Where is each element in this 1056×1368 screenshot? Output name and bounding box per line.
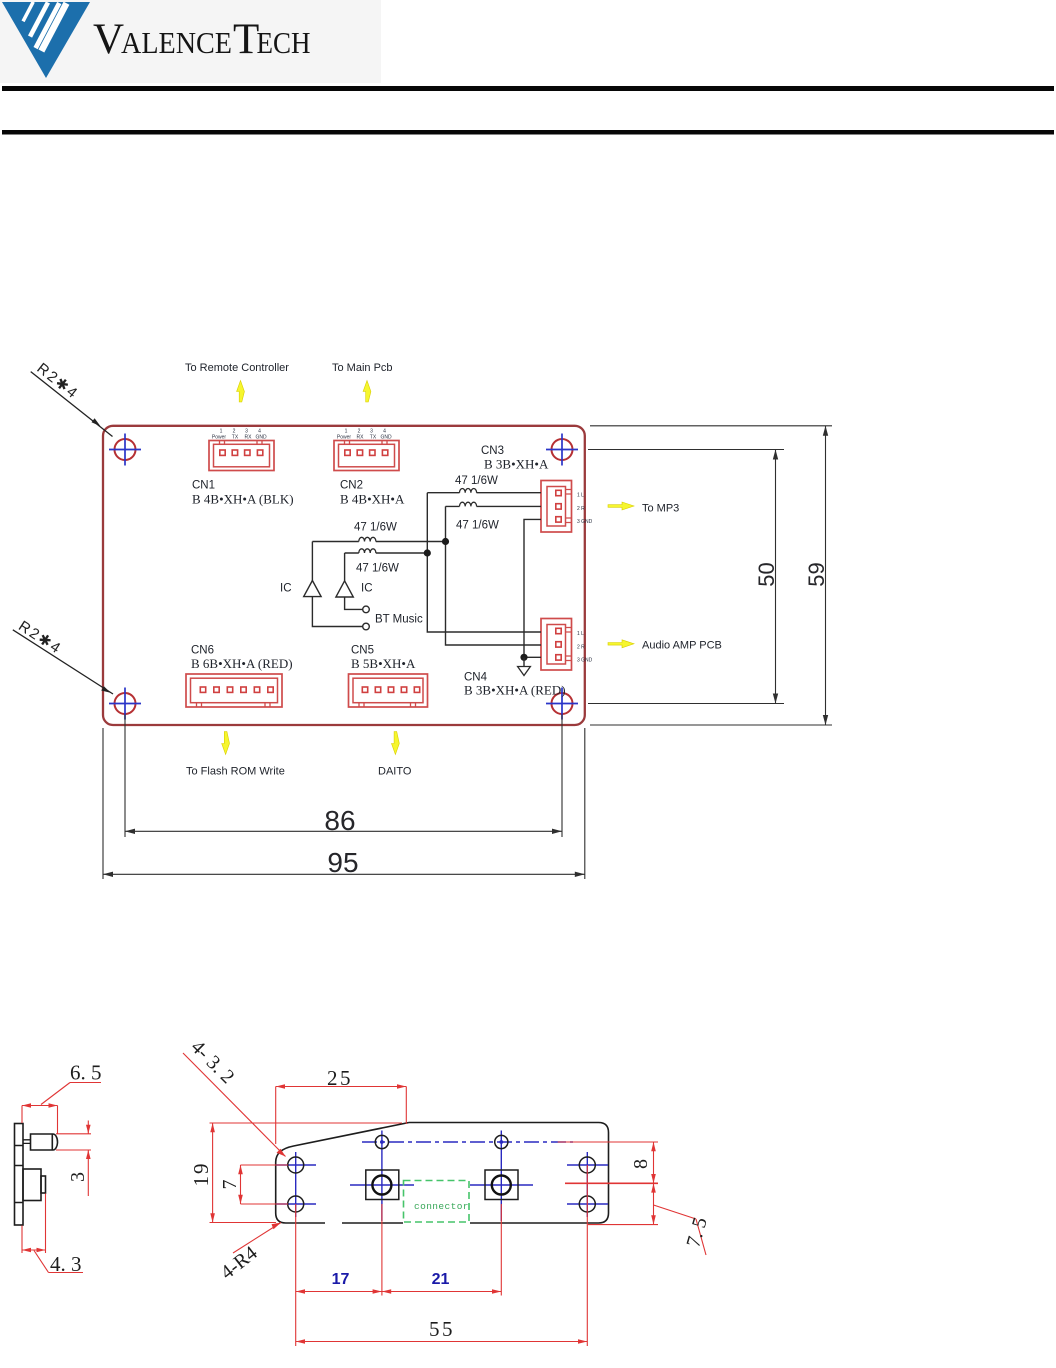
hole left bottom xyxy=(288,1196,304,1212)
svg-text:47 1/6W: 47 1/6W xyxy=(455,475,498,487)
dim 8 xyxy=(558,1141,658,1143)
resistor R2 47 1/6W (to CN3 pin2) xyxy=(460,502,477,506)
rule 2 xyxy=(2,130,1054,135)
mounting hole top-left xyxy=(109,434,141,466)
svg-text:2 R: 2 R xyxy=(577,506,585,512)
dim 7 xyxy=(240,1165,242,1204)
dim 3 xyxy=(56,1121,91,1197)
svg-text:ALENCE: ALENCE xyxy=(121,25,232,60)
CN3 pin labels xyxy=(577,493,593,526)
resistor R3 47 1/6W xyxy=(359,537,376,541)
svg-text:8: 8 xyxy=(630,1159,652,1169)
connector CN5 (5-pin) xyxy=(349,674,428,707)
svg-text:4- 3. 2: 4- 3. 2 xyxy=(186,1036,238,1088)
stud stem xyxy=(23,1140,31,1144)
svg-text:ECH: ECH xyxy=(257,25,311,60)
wire to IC triangle 1 xyxy=(311,542,313,581)
switch contact upper (BT Music) xyxy=(363,606,370,613)
blue vertical centerline through pad 1 xyxy=(381,1131,383,1222)
junction dot V2/wireA xyxy=(442,538,449,545)
red dimension group xyxy=(183,1053,706,1346)
R2*4 leader bottom xyxy=(13,618,113,694)
svg-text:IC: IC xyxy=(280,583,292,595)
green connector box xyxy=(404,1181,470,1223)
svg-text:55: 55 xyxy=(429,1317,455,1341)
svg-text:59: 59 xyxy=(804,562,829,586)
connector CN4 (3-pin vertical) xyxy=(541,619,572,671)
svg-text:B 3B•XH•A (RED): B 3B•XH•A (RED) xyxy=(464,683,566,698)
connector CN1 (4-pin) xyxy=(209,441,274,471)
pad circle 2 xyxy=(492,1176,511,1195)
wire B (left lower, with resistor R4) xyxy=(345,552,428,554)
resistor R1 47 1/6W (top, to CN3 pin1) xyxy=(460,489,477,493)
extension line left edge down xyxy=(102,728,104,879)
R2*4 leader top xyxy=(31,360,113,437)
yellow arrow down (daito) xyxy=(392,732,400,755)
dimension 59 line xyxy=(825,426,827,725)
yellow arrow right (to mp3) xyxy=(608,502,634,510)
wire CN3 pin3 GND to CN4 pin3 xyxy=(524,519,541,657)
svg-text:To Flash ROM Write: To Flash ROM Write xyxy=(186,766,285,778)
lower block xyxy=(23,1169,46,1201)
dim 17 / 21 xyxy=(296,1291,382,1293)
switch contact lower (BT Music) xyxy=(363,623,370,630)
svg-text:CN6: CN6 xyxy=(191,645,214,657)
PCB board outline xyxy=(103,426,585,725)
small hole 1 xyxy=(375,1135,388,1148)
dimension 50 line xyxy=(775,450,777,704)
dimension 95 line xyxy=(103,873,585,875)
dim 7.5 xyxy=(653,1183,655,1224)
mounting hole top-right xyxy=(546,434,578,466)
svg-text:7. 5: 7. 5 xyxy=(682,1215,711,1250)
svg-text:B 6B•XH•A (RED): B 6B•XH•A (RED) xyxy=(191,656,293,671)
leader 4-3.2 xyxy=(183,1053,286,1157)
dim 4.3 xyxy=(22,1194,83,1273)
svg-text:BT Music: BT Music xyxy=(375,614,423,626)
logo V mark xyxy=(2,1,90,78)
svg-text:TX: TX xyxy=(370,435,377,441)
extension line right hole down xyxy=(561,715,563,838)
extension line bottom hole right xyxy=(588,703,784,705)
svg-text:25: 25 xyxy=(327,1066,353,1090)
svg-text:1 L: 1 L xyxy=(577,631,584,637)
svg-text:B 4B•XH•A: B 4B•XH•A xyxy=(340,492,405,507)
CN4 pin labels xyxy=(577,631,593,664)
yellow arrow up (to main pcb) xyxy=(363,381,371,403)
svg-text:To Remote Controller: To Remote Controller xyxy=(185,362,289,374)
wire triangle2 to switch upper contact xyxy=(345,597,363,609)
svg-text:47 1/6W: 47 1/6W xyxy=(354,522,397,534)
svg-text:47 1/6W: 47 1/6W xyxy=(456,520,499,532)
svg-text:R2✱4: R2✱4 xyxy=(34,360,82,403)
svg-text:V: V xyxy=(93,16,124,63)
side plate xyxy=(15,1124,24,1226)
blue vertical centerline through pad 2 xyxy=(500,1131,502,1222)
CN1 pin labels xyxy=(212,429,267,441)
op-amp IC triangle 1 xyxy=(304,581,321,597)
svg-text:CN5: CN5 xyxy=(351,645,374,657)
blue centerlines pads xyxy=(350,1184,533,1186)
svg-text:CN3: CN3 xyxy=(481,445,504,457)
extension line left hole down xyxy=(124,715,126,838)
small hole 2 xyxy=(495,1135,508,1148)
svg-text:Power: Power xyxy=(337,435,352,441)
svg-text:1 L: 1 L xyxy=(577,493,584,499)
yellow arrow right (audio amp pcb) xyxy=(608,640,634,648)
svg-text:B 4B•XH•A (BLK): B 4B•XH•A (BLK) xyxy=(192,492,294,507)
svg-text:T: T xyxy=(233,16,259,63)
svg-text:TX: TX xyxy=(232,435,239,441)
extension line top hole right xyxy=(588,449,784,451)
mounting hole bottom-right xyxy=(546,688,578,720)
extension line bottom edge right xyxy=(590,724,832,726)
wire CN3 pin2 row with resistor xyxy=(446,505,542,507)
connector CN3 (3-pin vertical) xyxy=(541,481,572,533)
svg-text:RX: RX xyxy=(357,435,365,441)
svg-text:CN1: CN1 xyxy=(192,480,215,492)
svg-text:19: 19 xyxy=(189,1162,213,1187)
wire to IC triangle 2 xyxy=(344,553,346,581)
CN2 pin labels xyxy=(337,429,392,441)
hole right top xyxy=(579,1157,595,1173)
wire vertical V2 and to CN4 pin2 xyxy=(446,506,542,645)
svg-text:CN2: CN2 xyxy=(340,480,363,492)
pad square 1 xyxy=(366,1170,399,1200)
pad circle 1 xyxy=(372,1176,391,1195)
wire A (left, with resistor R3) xyxy=(312,541,445,543)
op-amp IC triangle 2 xyxy=(336,581,353,597)
junction dot GND xyxy=(520,654,527,661)
svg-text:47 1/6W: 47 1/6W xyxy=(356,563,399,575)
wire CN3 pin1 row with resistor xyxy=(427,492,541,494)
svg-text:3 GND: 3 GND xyxy=(577,658,593,664)
dimension 86 line xyxy=(125,830,562,832)
dim 6.5 xyxy=(22,1083,101,1134)
extension line right edge down xyxy=(584,728,586,879)
logo text VALENCETECH xyxy=(93,16,311,63)
rule 1 xyxy=(2,86,1054,91)
dim 55 xyxy=(296,1341,588,1343)
pad square 2 xyxy=(485,1170,518,1200)
wire triangle1 to switch lower contact xyxy=(312,597,362,627)
svg-text:IC: IC xyxy=(361,583,373,595)
svg-text:50: 50 xyxy=(754,562,779,586)
svg-text:B 3B•XH•A: B 3B•XH•A xyxy=(484,457,549,472)
svg-text:B 5B•XH•A: B 5B•XH•A xyxy=(351,656,416,671)
connector CN6 (6-pin) xyxy=(186,674,282,707)
svg-text:Power: Power xyxy=(212,435,227,441)
svg-text:DAITO: DAITO xyxy=(378,766,412,778)
connector CN2 (4-pin) xyxy=(334,441,399,471)
leader 4-R4 xyxy=(233,1223,281,1254)
svg-text:4-R4: 4-R4 xyxy=(217,1242,262,1284)
svg-text:86: 86 xyxy=(324,805,355,836)
svg-text:4. 3: 4. 3 xyxy=(50,1252,82,1276)
svg-text:GND: GND xyxy=(255,435,267,441)
blue centerlines left hole pair xyxy=(276,1152,316,1217)
dim 25 xyxy=(276,1086,407,1088)
blue centerlines right hole pair xyxy=(567,1152,608,1217)
dim 19 xyxy=(212,1123,214,1223)
svg-text:7: 7 xyxy=(219,1180,241,1190)
blue centerline dashed horizontal (small holes row) xyxy=(362,1141,573,1143)
bracket outline xyxy=(276,1123,609,1224)
mounting hole bottom-left xyxy=(109,688,141,720)
yellow arrow down (to flash rom write) xyxy=(222,732,230,755)
svg-text:R2✱4: R2✱4 xyxy=(15,618,65,658)
hole left top xyxy=(288,1157,304,1173)
svg-text:To MP3: To MP3 xyxy=(642,503,679,515)
resistor R4 47 1/6W xyxy=(359,549,376,553)
svg-text:3 GND: 3 GND xyxy=(577,519,593,525)
logo backdrop xyxy=(0,0,381,83)
svg-text:To Main Pcb: To Main Pcb xyxy=(332,362,393,374)
svg-text:95: 95 xyxy=(327,847,358,878)
stud cylinder xyxy=(31,1134,58,1150)
svg-text:connector: connector xyxy=(414,1201,469,1212)
svg-text:RX: RX xyxy=(245,435,253,441)
svg-text:Audio AMP PCB: Audio AMP PCB xyxy=(642,640,722,652)
svg-text:3: 3 xyxy=(67,1172,89,1182)
extension line top edge right xyxy=(590,425,832,427)
junction dot V1/wireB xyxy=(424,549,431,556)
svg-text:2 R: 2 R xyxy=(577,645,585,651)
ground xyxy=(523,657,525,666)
yellow arrow up (to remote controller) xyxy=(237,381,245,403)
svg-text:GND: GND xyxy=(380,435,392,441)
wire vertical V1 and to CN4 pin1 xyxy=(427,493,541,632)
hole right bottom xyxy=(579,1196,595,1212)
svg-text:21: 21 xyxy=(432,1271,450,1288)
svg-text:17: 17 xyxy=(332,1271,350,1288)
svg-text:6. 5: 6. 5 xyxy=(70,1061,102,1085)
